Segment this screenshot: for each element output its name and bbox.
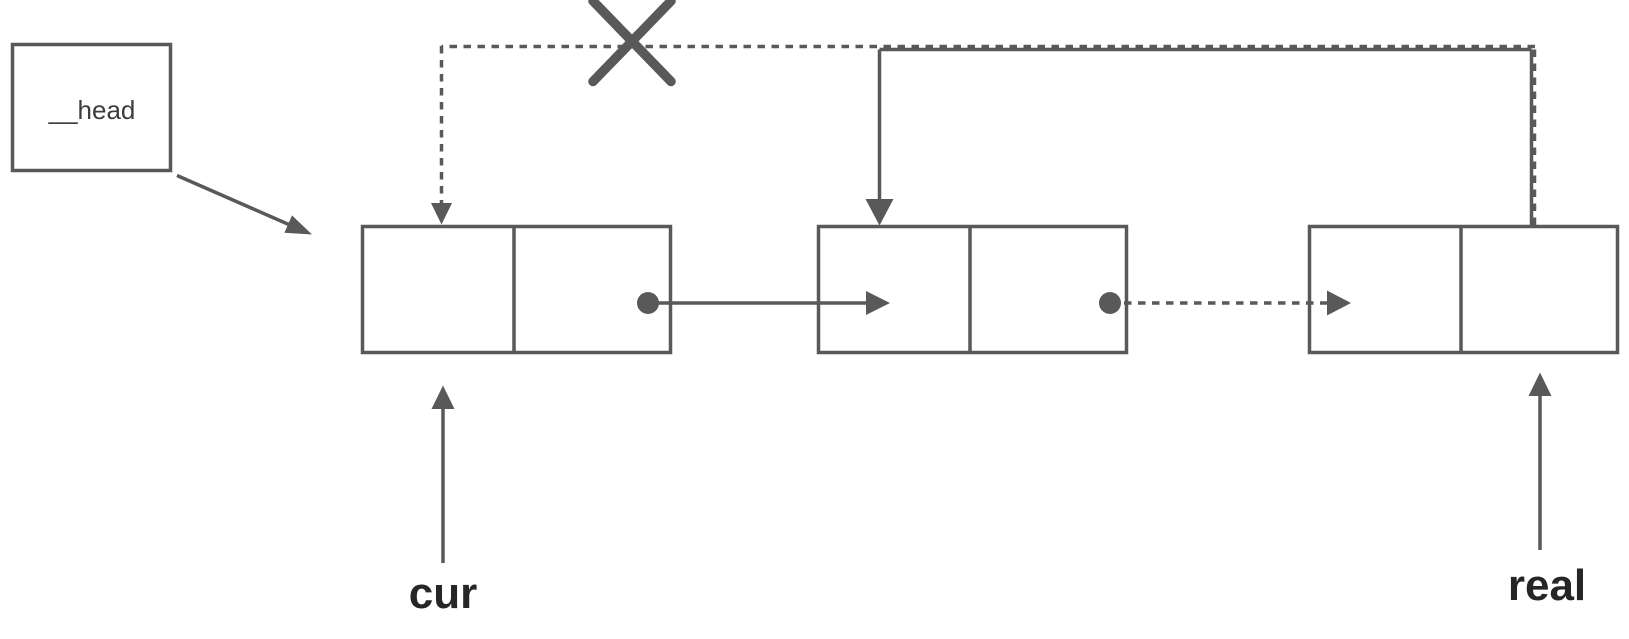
- svg-text:real: real: [1508, 561, 1586, 610]
- svg-text:__head: __head: [48, 95, 136, 125]
- svg-text:cur: cur: [409, 569, 477, 618]
